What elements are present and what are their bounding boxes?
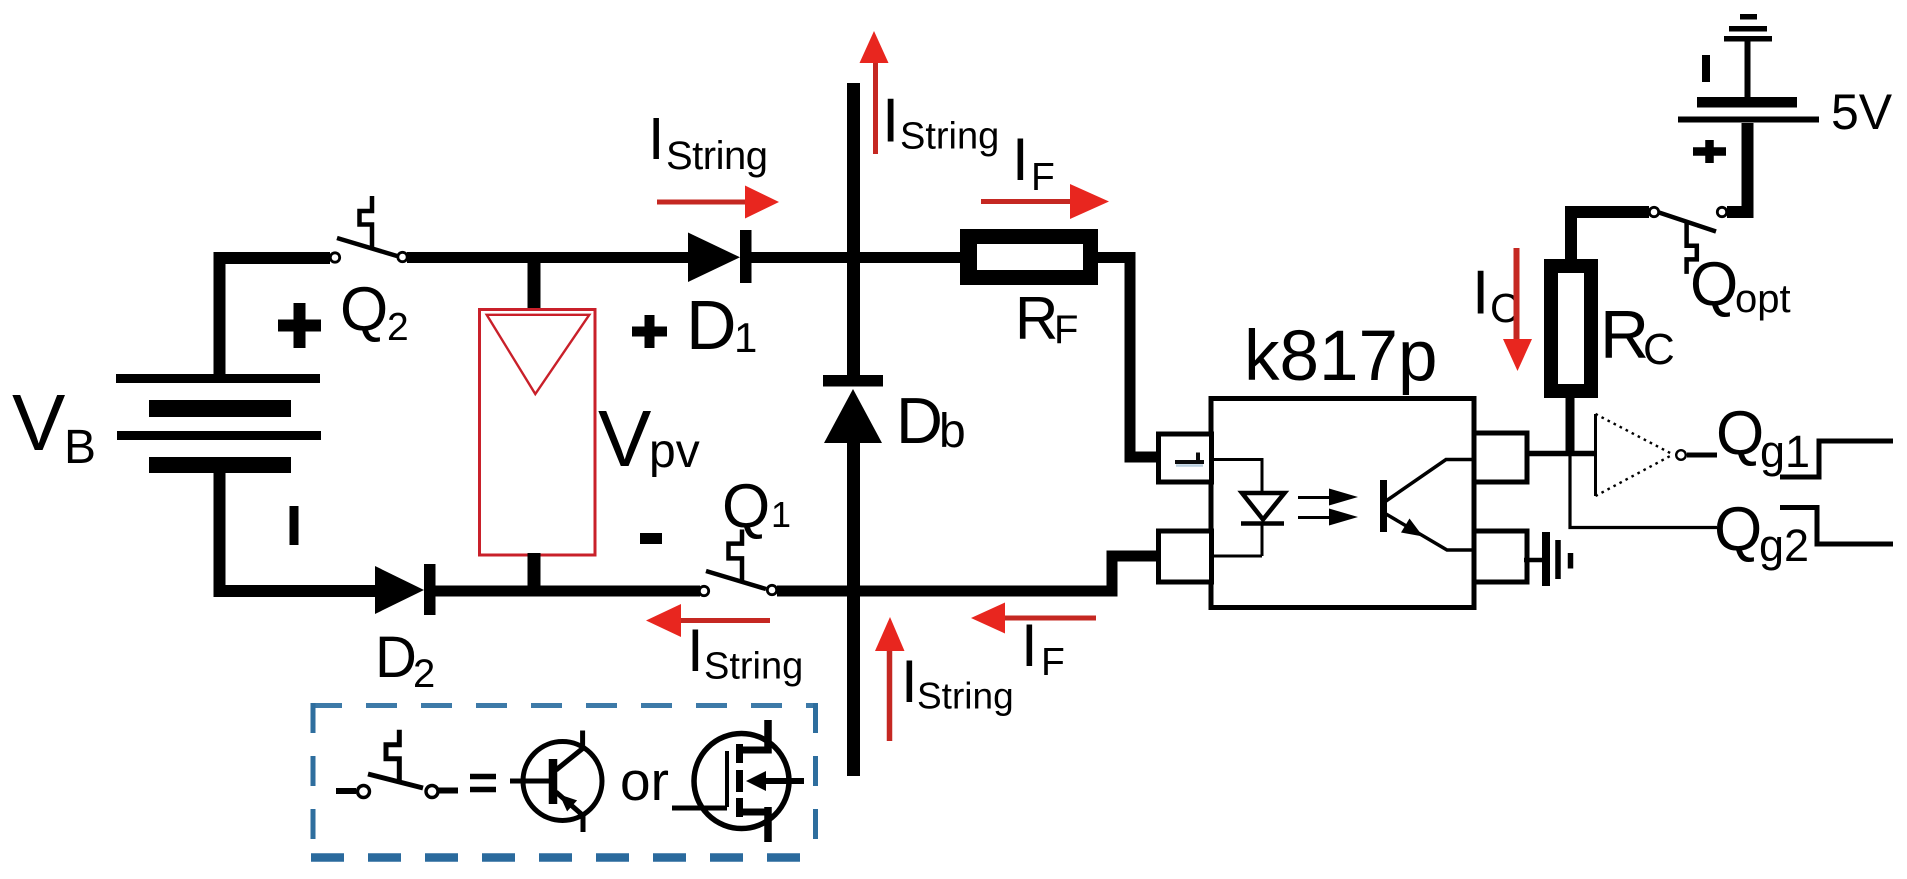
svg-text:g1: g1 <box>1760 426 1810 477</box>
diode D1 <box>688 230 752 283</box>
svg-text:D: D <box>686 286 737 364</box>
svg-text:I: I <box>1012 126 1029 193</box>
wire battery top to Q2 <box>220 258 331 377</box>
PV source Vpv <box>480 252 596 591</box>
svg-text:I: I <box>648 106 664 172</box>
label Qg1 <box>1716 399 1810 477</box>
svg-text:Q: Q <box>1714 495 1762 564</box>
label VB <box>12 378 96 474</box>
diode Db <box>823 375 883 443</box>
label D1 <box>686 286 757 364</box>
svg-text:Q: Q <box>340 275 388 344</box>
arrow IC <box>1503 248 1532 371</box>
current label IString top-left <box>648 106 768 178</box>
resistor RF <box>960 229 1098 285</box>
Vpv minus label <box>640 533 662 544</box>
svg-text:B: B <box>64 421 96 474</box>
legend box <box>311 703 818 862</box>
svg-text:R: R <box>1015 285 1058 352</box>
label Qopt <box>1690 250 1791 321</box>
label RC <box>1600 297 1675 374</box>
opto pin 3 <box>1474 531 1527 582</box>
current label IC <box>1472 259 1520 332</box>
label Db <box>896 384 966 458</box>
wire junction down to Qg2 <box>1570 454 1717 528</box>
svg-text:5V: 5V <box>1831 84 1893 140</box>
svg-text:D: D <box>896 384 943 457</box>
svg-text:Q: Q <box>722 472 770 541</box>
arrow IString bus-top <box>860 31 889 154</box>
svg-text:Q: Q <box>1716 399 1764 468</box>
battery 5V <box>1678 14 1819 123</box>
svg-text:opt: opt <box>1735 277 1791 321</box>
arrow IString bus-bottom <box>875 617 905 741</box>
current label IString bus-bottom <box>901 648 1014 717</box>
svg-text:b: b <box>939 405 966 458</box>
wire RC bottom stub <box>1566 398 1575 454</box>
svg-text:D: D <box>375 625 417 690</box>
pin 1 dash mark <box>1175 453 1204 466</box>
battery minus label <box>290 506 299 545</box>
svg-text:2: 2 <box>413 652 435 696</box>
legend transistor BJT <box>510 731 602 833</box>
wire RF to opto pin1 <box>1098 258 1160 458</box>
string bus wire <box>847 83 860 776</box>
current label IF bottom <box>1021 612 1065 684</box>
svg-text:I: I <box>1021 612 1038 679</box>
opto pin 2 <box>1159 531 1212 582</box>
legend switch symbol <box>336 730 458 798</box>
arrow IString top-left <box>657 186 779 219</box>
legend transistor MOSFET <box>672 720 804 842</box>
opto phototransistor Q3 <box>1384 460 1475 551</box>
5V plus label <box>1693 140 1726 163</box>
label Qg2 <box>1714 495 1809 571</box>
svg-text:String: String <box>900 116 999 158</box>
wire D1 to RF <box>751 252 961 263</box>
label Q1 <box>722 472 791 541</box>
svg-text:Q: Q <box>1690 250 1738 319</box>
current label IString bottom-left <box>687 617 803 688</box>
Qg2 step waveform <box>1780 508 1893 545</box>
resistor RC <box>1544 259 1598 398</box>
buffer U2 <box>1596 414 1718 496</box>
label Vpv <box>598 394 700 483</box>
svg-text:String: String <box>704 646 803 688</box>
wire Q1 to opto pin2 <box>777 556 1160 591</box>
label Q2 <box>340 275 409 349</box>
switch Q2 <box>330 196 407 262</box>
wire Qopt to 5V battery <box>1727 123 1748 212</box>
wire Q2 to D1 <box>407 252 688 263</box>
opto LED D3 <box>1241 493 1285 524</box>
svg-text:V: V <box>12 378 66 467</box>
wire pin4 to RC junction <box>1527 451 1596 457</box>
battery plus label <box>278 303 321 348</box>
label D2 <box>375 625 435 696</box>
arrow IString bottom-left <box>646 604 770 637</box>
wire RC top to Qopt <box>1571 212 1649 260</box>
arrow IF bottom <box>971 603 1096 634</box>
opto pin 4 <box>1474 433 1527 482</box>
battery VB <box>116 374 321 473</box>
label RF <box>1015 285 1078 352</box>
opto pin 1 <box>1159 434 1212 482</box>
svg-text:I: I <box>1472 259 1489 328</box>
current label IF top <box>1012 126 1055 199</box>
arrow IF top <box>981 184 1109 219</box>
svg-text:pv: pv <box>649 425 700 478</box>
svg-text:C: C <box>1643 325 1675 374</box>
diode D2 <box>375 564 436 615</box>
switch Qopt <box>1649 207 1726 274</box>
current label IString bus-top <box>882 87 999 158</box>
svg-text:2: 2 <box>387 306 409 349</box>
svg-text:R: R <box>1600 297 1649 373</box>
legend equals sign <box>470 777 496 790</box>
wire battery bottom to D2 <box>220 466 376 591</box>
svg-text:I: I <box>901 648 918 715</box>
wire D2 to Q1 <box>435 586 700 597</box>
svg-text:1: 1 <box>771 494 791 535</box>
svg-text:g2: g2 <box>1759 520 1809 571</box>
svg-text:String: String <box>666 134 768 178</box>
svg-text:String: String <box>917 676 1014 717</box>
svg-text:I: I <box>687 617 704 684</box>
opto LED frame <box>1211 460 1262 557</box>
svg-text:F: F <box>1054 308 1078 352</box>
switch Q1 <box>699 530 776 596</box>
svg-text:V: V <box>598 394 652 483</box>
Qg1 step waveform <box>1780 441 1893 477</box>
svg-text:1: 1 <box>734 314 757 361</box>
svg-text:or: or <box>620 750 669 812</box>
optocoupler U1 k817p box <box>1211 399 1474 608</box>
ground at opto pin3 <box>1524 532 1571 586</box>
svg-text:F: F <box>1031 156 1055 199</box>
svg-text:F: F <box>1041 641 1065 684</box>
Vpv plus label <box>632 315 667 348</box>
opto light arrows <box>1298 489 1358 526</box>
5V minus label <box>1702 55 1710 82</box>
svg-text:k817p: k817p <box>1244 317 1437 396</box>
svg-text:I: I <box>882 87 899 156</box>
